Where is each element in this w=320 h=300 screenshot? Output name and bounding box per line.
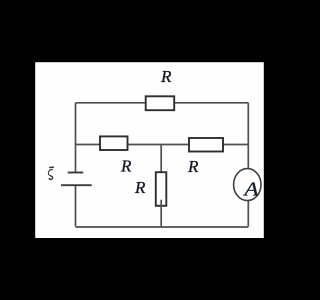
svg-text:R: R (134, 178, 146, 197)
svg-text:R: R (187, 157, 199, 176)
svg-text:A: A (242, 178, 259, 200)
svg-text:R: R (120, 156, 132, 175)
svg-text:R: R (160, 67, 172, 86)
